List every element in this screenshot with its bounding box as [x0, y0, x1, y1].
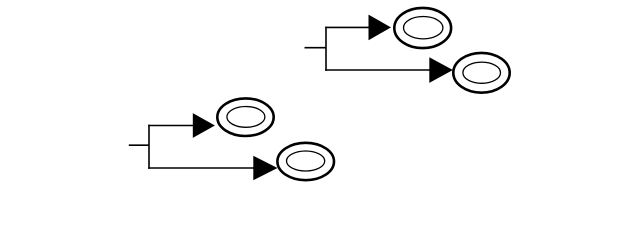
arrowhead to node S2: [429, 57, 453, 83]
arrowhead to node S4: [253, 156, 277, 180]
branch point 1 vertical bar: [325, 27, 327, 71]
wire to node S2: [325, 69, 430, 71]
branch point 2 input stub: [129, 144, 149, 146]
node S4 inner ellipse: [287, 151, 325, 171]
wire to node S4: [148, 167, 254, 169]
wire to node S3: [148, 125, 193, 127]
wire to node S1: [325, 26, 369, 28]
node S1 outer ellipse: [394, 8, 451, 48]
arrowhead to node S3: [193, 113, 215, 138]
branch point 2 vertical bar: [148, 125, 150, 169]
node S3 inner ellipse: [227, 107, 265, 128]
node S1 inner ellipse: [404, 17, 443, 39]
branch point 1 input stub: [305, 47, 327, 49]
node S2 outer ellipse: [453, 53, 509, 93]
arrowhead to node S1: [369, 15, 392, 41]
node S4 outer ellipse: [277, 143, 334, 180]
node S2 inner ellipse: [463, 62, 501, 83]
node S3 outer ellipse: [217, 98, 273, 136]
